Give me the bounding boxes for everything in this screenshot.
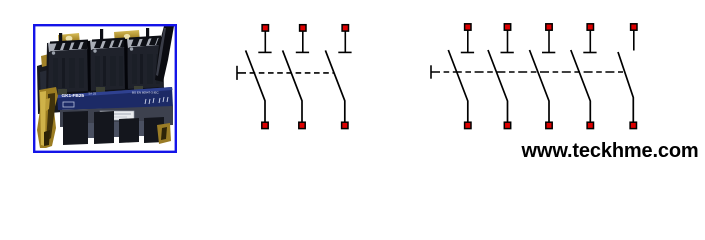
pole 5 (neutral) top lead (633, 31, 635, 51)
photo: lower rail with contacts (46, 87, 165, 101)
pole 3 top lead (548, 31, 550, 53)
photo: gold fuse clip above carriers (left) (58, 33, 80, 46)
pole 1 top lead (467, 31, 469, 53)
photo: bottom teeth (63, 111, 88, 145)
pole 2 top terminal (504, 24, 510, 30)
pole 2 top terminal (300, 25, 306, 31)
pole 3 fixed contact bar (338, 51, 351, 53)
pole 3 top lead (344, 31, 346, 53)
pole 1 top terminal (262, 25, 268, 31)
pole 1 blade (246, 50, 265, 122)
operating handle bar (430, 65, 432, 78)
photo frame (blue border) (34, 25, 176, 152)
pole 4 fixed contact bar (583, 52, 596, 54)
pole 5 blade (618, 52, 633, 123)
pole 1 bottom terminal (262, 122, 268, 128)
pole 2 blade (283, 50, 302, 122)
pole 3 bottom terminal (342, 122, 348, 128)
photo: carrier front tops (48, 49, 90, 95)
pole 4 blade (571, 50, 591, 123)
photo: gold bits bottom right (157, 123, 171, 144)
photo: carrier slots / panels (53, 58, 58, 88)
photo: small gold bit left edge (41, 54, 50, 67)
pole 3 top terminal (342, 25, 348, 31)
pole 1 fixed contact bar (461, 52, 474, 54)
pole 5 bottom terminal (630, 122, 636, 128)
svg-text:5A 25: 5A 25 (89, 92, 97, 96)
photo: left stepped dark housing (37, 62, 62, 114)
pole 2 bottom terminal (299, 122, 305, 128)
pole 1 bottom terminal (465, 122, 471, 128)
svg-text:BS EN 60947-3 IEC: BS EN 60947-3 IEC (132, 91, 160, 95)
pole 3 blade (530, 50, 550, 123)
pole 2 bottom terminal (504, 122, 510, 128)
pole 1 blade (448, 50, 468, 123)
photo: base bar with white label (60, 106, 173, 127)
pole 2 fixed contact bar (296, 51, 309, 53)
photo: black cable top right (155, 26, 174, 82)
mechanical linkage (dashed) (431, 71, 623, 73)
pole 3 bottom terminal (546, 122, 552, 128)
pole 4 top lead (589, 31, 591, 53)
pole 2 fixed contact bar (501, 52, 514, 54)
watermark text (522, 141, 699, 161)
pole 4 bottom terminal (587, 122, 593, 128)
photo: carrier 3 deck (127, 37, 162, 48)
photo: gold bracket left (37, 87, 58, 148)
photo: carrier 2 deck (90, 39, 126, 50)
pole 4 top terminal (587, 24, 593, 30)
photo: main dark carrier block (46, 37, 164, 97)
pole 3 top terminal (546, 24, 552, 30)
pole 2 blade (488, 50, 508, 123)
pole 2 top lead (302, 31, 304, 53)
pole 5 top terminal (631, 24, 637, 30)
photo: carrier 1 deck (48, 41, 89, 52)
pole 3 fixed contact bar (542, 52, 555, 54)
photo: carrier gaps (87, 41, 91, 93)
pole 2 top lead (507, 31, 509, 53)
photo: carrier handle bars (50, 40, 88, 44)
photo: navy label band (57, 87, 173, 110)
photo: gold fuse clip above carriers (right) (114, 30, 140, 44)
pole 3 blade (325, 50, 344, 122)
svg-text:GK1-FB25: GK1-FB25 (62, 93, 85, 99)
pole 1 top lead (264, 31, 266, 53)
mechanical linkage (dashed) (237, 72, 334, 74)
product photo: GK1-FB25 fuse switch disconnector (35, 26, 176, 151)
pole 1 fixed contact bar (258, 51, 271, 53)
operating handle bar (236, 66, 238, 80)
pole 1 top terminal (465, 24, 471, 30)
